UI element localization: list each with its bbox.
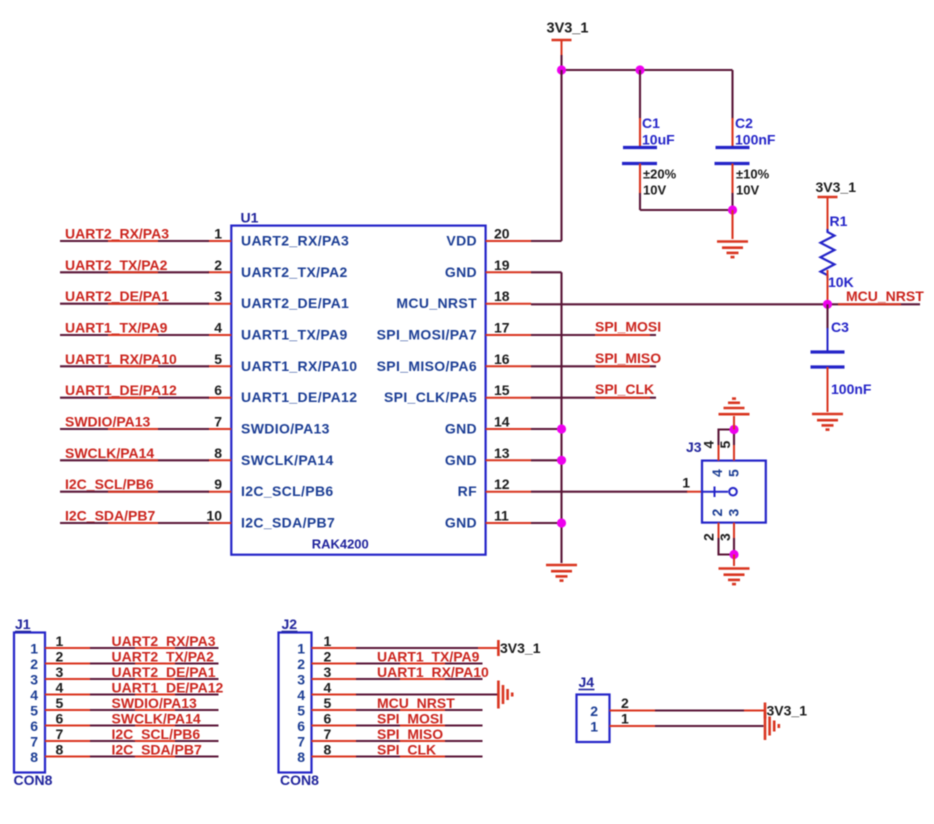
svg-text:13: 13	[494, 445, 510, 461]
svg-text:UART2_RX/PA3: UART2_RX/PA3	[112, 633, 216, 649]
J2 pin 6 stub	[312, 725, 358, 727]
wire net UART2_TX/PA2	[60, 271, 209, 273]
svg-text:MCU_NRST: MCU_NRST	[846, 288, 924, 304]
net label SWCLK/PA14 at J1 pin 6	[112, 711, 201, 727]
J1 pin 3 stub	[45, 678, 91, 680]
wire stub to ground under C2	[731, 210, 733, 239]
svg-text:6: 6	[297, 718, 305, 734]
connector J2 body	[279, 633, 312, 773]
net label MCU_NRST	[838, 288, 924, 304]
connector J3 body	[702, 461, 766, 523]
svg-text:7: 7	[30, 734, 38, 750]
J1 pin 5 stub	[45, 709, 91, 711]
svg-text:RAK4200: RAK4200	[312, 537, 369, 552]
J4 pin 1 stub	[610, 725, 657, 727]
svg-text:100nF: 100nF	[735, 132, 776, 148]
svg-text:2: 2	[590, 703, 598, 719]
ground below J3	[719, 569, 750, 585]
svg-text:UART1_RX/PA10: UART1_RX/PA10	[377, 664, 489, 680]
wire net I2C_SCL/PB6	[60, 491, 209, 493]
svg-text:10V: 10V	[643, 183, 666, 198]
power symbol 3V3_1 at J2	[498, 640, 540, 656]
J1 pin 1 stub	[45, 647, 91, 649]
ground at GND bus bottom	[546, 565, 577, 581]
wire net RF to J3	[531, 491, 688, 493]
svg-text:SWDIO/PA13: SWDIO/PA13	[112, 695, 198, 711]
svg-text:J1: J1	[15, 616, 31, 632]
wire J1 pin 3 net UART2_DE/PA1	[90, 678, 219, 680]
wire J1 pin 4 net UART1_DE/PA12	[90, 693, 219, 695]
U1 pin 6 stub	[208, 397, 231, 399]
svg-text:8: 8	[297, 749, 305, 765]
net label SPI_CLK	[595, 381, 654, 398]
svg-text:6: 6	[214, 382, 222, 398]
J3 internal pin names 4 5	[709, 469, 742, 477]
svg-text:C3: C3	[831, 319, 849, 335]
svg-text:UART2_DE/PA1: UART2_DE/PA1	[65, 288, 169, 304]
svg-text:VDD: VDD	[446, 233, 477, 249]
U1 pin 4 stub	[208, 334, 231, 336]
wire net UART1_DE/PA12	[60, 397, 209, 399]
svg-text:MCU_NRST: MCU_NRST	[377, 695, 455, 711]
svg-text:1: 1	[621, 711, 629, 727]
svg-text:GND: GND	[445, 421, 477, 437]
power symbol 3V3_1 (right)	[816, 179, 857, 229]
junction at cap ground	[728, 205, 737, 214]
svg-text:2: 2	[297, 656, 305, 672]
svg-text:2: 2	[214, 257, 222, 273]
svg-text:7: 7	[56, 726, 64, 742]
wire J3 top pins to ground	[719, 430, 735, 446]
svg-text:5: 5	[56, 695, 64, 711]
power symbol 3V3_1 (top)	[547, 21, 589, 57]
J3 pin 2 stub	[718, 523, 720, 539]
net label UART1_TX/PA9	[65, 320, 168, 336]
U1 pin 2 stub	[208, 271, 231, 273]
wire 3V3 rail	[562, 69, 733, 71]
U1 pin 8 stub	[208, 459, 231, 461]
J2 reference designator	[282, 616, 298, 632]
svg-text:1: 1	[214, 226, 222, 242]
wire J1 pin 8 net I2C_SDA/PB7	[90, 755, 219, 757]
net label SWDIO/PA13	[65, 414, 158, 430]
svg-text:4: 4	[30, 687, 38, 703]
svg-text:10uF: 10uF	[642, 132, 675, 148]
net label UART1_RX/PA10	[65, 351, 177, 367]
capacitor C1	[622, 115, 675, 164]
svg-text:SPI_CLK/PA5: SPI_CLK/PA5	[384, 389, 477, 405]
ground under C3	[812, 414, 843, 430]
U1 pin 17 stub	[486, 334, 531, 336]
svg-text:5: 5	[726, 469, 742, 477]
svg-text:C1: C1	[642, 115, 660, 131]
svg-text:I2C_SCL/PB6: I2C_SCL/PB6	[241, 483, 334, 499]
wire net I2C_SDA/PB7	[60, 522, 209, 524]
net label SPI_MOSI	[595, 319, 661, 336]
svg-text:UART2_DE/PA1: UART2_DE/PA1	[112, 664, 216, 680]
svg-text:UART1_TX/PA9: UART1_TX/PA9	[241, 327, 348, 343]
wire net MCU_NRST	[531, 303, 920, 305]
svg-text:SPI_MISO: SPI_MISO	[377, 726, 443, 742]
U1 pin 3 stub	[208, 303, 231, 305]
net label I2C_SCL/PB6	[65, 476, 158, 492]
svg-text:17: 17	[494, 320, 510, 336]
wire J1 pin 6 net SWCLK/PA14	[90, 724, 219, 726]
net label UART1_DE/PA12 at J1 pin 4	[112, 680, 224, 696]
svg-text:I2C_SDA/PB7: I2C_SDA/PB7	[241, 515, 335, 531]
wire net UART2_RX/PA3	[60, 240, 209, 242]
wire C1 top branch	[639, 70, 641, 119]
svg-text:GND: GND	[445, 515, 477, 531]
net label SPI_MOSI at J2 pin 6	[377, 711, 445, 727]
svg-text:SWDIO/PA13: SWDIO/PA13	[241, 421, 330, 437]
svg-text:SPI_MOSI: SPI_MOSI	[595, 319, 661, 335]
J2 pin 4 stub	[312, 694, 358, 696]
wire GND bus vertical	[560, 272, 562, 563]
svg-text:5: 5	[324, 695, 332, 711]
ground above J3 (inverted)	[719, 399, 750, 415]
svg-text:3: 3	[214, 288, 222, 304]
J2 pin 1 stub	[312, 647, 358, 649]
svg-text:GND: GND	[445, 452, 477, 468]
svg-text:UART1_RX/PA10: UART1_RX/PA10	[65, 351, 177, 367]
svg-text:5: 5	[297, 703, 305, 719]
J1 pin 4 stub	[45, 694, 91, 696]
svg-text:UART1_DE/PA12: UART1_DE/PA12	[112, 680, 224, 696]
svg-text:4: 4	[214, 320, 222, 336]
svg-text:4: 4	[709, 469, 725, 477]
svg-text:UART1_DE/PA12: UART1_DE/PA12	[241, 389, 357, 405]
svg-text:C2: C2	[735, 115, 753, 131]
svg-text:J4: J4	[579, 674, 595, 690]
J1 pin 2 stub	[45, 663, 91, 665]
svg-text:7: 7	[214, 414, 222, 430]
svg-text:3: 3	[324, 664, 332, 680]
svg-text:SWCLK/PA14: SWCLK/PA14	[112, 711, 201, 727]
wire pin 19 GND to bus	[531, 271, 562, 273]
svg-text:1: 1	[682, 475, 690, 491]
wire J1 pin 2 net UART2_TX/PA2	[90, 662, 219, 664]
wire net SPI_MOSI	[531, 334, 656, 336]
wire J2 pin 5 net MCU_NRST	[356, 709, 483, 711]
J3 internal pin names 2 3	[709, 509, 742, 517]
ground at J2 pin 4 (sideways)	[498, 681, 512, 709]
U1 pin 16 stub	[486, 365, 531, 367]
svg-text:J3: J3	[686, 439, 702, 455]
svg-text:3V3_1: 3V3_1	[767, 703, 808, 719]
junction at 3V3 stub/rail	[557, 65, 566, 74]
svg-text:3V3_1: 3V3_1	[500, 640, 541, 656]
U1 pin 20 stub	[486, 240, 531, 242]
net label UART1_DE/PA12	[65, 382, 177, 398]
svg-text:8: 8	[56, 742, 64, 758]
svg-text:SPI_MOSI: SPI_MOSI	[377, 711, 443, 727]
junction at C1 branch	[635, 65, 644, 74]
net label UART1_TX/PA9 at J2 pin 2	[377, 649, 480, 665]
net label UART2_RX/PA3	[65, 226, 169, 242]
wire net SWCLK/PA14	[60, 459, 209, 461]
wire J1 pin 1 net UART2_RX/PA3	[90, 647, 219, 649]
svg-text:SPI_MISO/PA6: SPI_MISO/PA6	[377, 358, 477, 374]
wire J2 pin 4 to ground	[356, 693, 498, 695]
svg-text:11: 11	[494, 508, 509, 524]
svg-text:4: 4	[324, 680, 332, 696]
wire C3 bottom to ground	[827, 367, 829, 412]
U1 pin 10 stub	[208, 522, 231, 524]
J2 pin 5 stub	[312, 709, 358, 711]
svg-text:SWCLK/PA14: SWCLK/PA14	[65, 445, 154, 461]
J1 pin 6 stub	[45, 725, 91, 727]
svg-text:SPI_MISO: SPI_MISO	[595, 350, 661, 366]
U1 pin 19 stub	[486, 271, 531, 273]
svg-text:8: 8	[324, 742, 332, 758]
wire stub J3 bottom ground	[733, 555, 735, 567]
wire J2 pin 7 net SPI_MISO	[356, 740, 483, 742]
svg-text:±20%: ±20%	[643, 167, 677, 182]
svg-text:I2C_SCL/PB6: I2C_SCL/PB6	[112, 726, 201, 742]
net label UART1_RX/PA10 at J2 pin 3	[377, 664, 489, 680]
wire net UART2_DE/PA1	[60, 303, 209, 305]
wire J1 pin 7 net I2C_SCL/PB6	[90, 740, 219, 742]
svg-text:8: 8	[214, 445, 222, 461]
wire net SPI_MISO	[531, 365, 656, 367]
svg-text:1: 1	[324, 633, 332, 649]
svg-text:7: 7	[324, 726, 332, 742]
svg-text:GND: GND	[445, 264, 477, 280]
wire J1 pin 5 net SWDIO/PA13	[90, 709, 219, 711]
svg-text:100nF: 100nF	[831, 381, 872, 397]
J1 reference designator	[15, 616, 31, 632]
U1 pin 11 stub	[486, 522, 531, 524]
svg-text:RF: RF	[458, 483, 477, 499]
svg-text:R1: R1	[830, 213, 848, 229]
J4 pin 2 stub	[610, 710, 657, 712]
U1 pin 18 stub	[486, 303, 531, 305]
wire net UART1_RX/PA10	[60, 365, 209, 367]
net label I2C_SDA/PB7 at J1 pin 8	[112, 742, 202, 758]
connector J4 body	[577, 695, 610, 743]
J2 pin 3 stub	[312, 678, 358, 680]
junction J3 top ground	[729, 425, 738, 434]
svg-text:4: 4	[701, 441, 717, 449]
svg-text:2: 2	[30, 656, 38, 672]
svg-text:12: 12	[494, 476, 510, 492]
svg-text:19: 19	[494, 257, 510, 273]
svg-text:4: 4	[297, 687, 305, 703]
svg-text:UART2_TX/PA2: UART2_TX/PA2	[112, 649, 215, 665]
wire J4 pin 1 to ground	[655, 725, 764, 727]
svg-text:2: 2	[621, 695, 629, 711]
svg-text:3: 3	[56, 664, 64, 680]
J4 reference designator	[579, 674, 595, 690]
wire net UART1_TX/PA9	[60, 334, 209, 336]
wire net SWDIO/PA13	[60, 428, 209, 430]
svg-text:1: 1	[590, 719, 598, 735]
svg-text:CON8: CON8	[14, 772, 53, 788]
wire pin 13 to GND bus	[531, 459, 562, 461]
resistor R1	[821, 213, 854, 290]
svg-text:3: 3	[30, 672, 38, 688]
wire cap bottom rail	[640, 209, 733, 211]
svg-text:3V3_1: 3V3_1	[816, 179, 857, 195]
net label UART2_TX/PA2 at J1 pin 2	[112, 649, 215, 665]
svg-text:2: 2	[709, 509, 725, 517]
U1 pin 15 stub	[486, 397, 531, 399]
C1 tolerance label	[643, 167, 677, 198]
net label SPI_MISO at J2 pin 7	[377, 726, 445, 742]
svg-text:UART2_RX/PA3: UART2_RX/PA3	[65, 226, 169, 242]
U1 pin 9 stub	[208, 491, 231, 493]
svg-text:1: 1	[56, 633, 64, 649]
wire C1 bottom	[639, 164, 641, 195]
svg-text:3V3_1: 3V3_1	[547, 21, 589, 37]
svg-text:SWDIO/PA13: SWDIO/PA13	[65, 414, 151, 430]
wire net SPI_CLK	[531, 397, 656, 399]
svg-text:I2C_SCL/PB6: I2C_SCL/PB6	[65, 476, 154, 492]
svg-text:UART2_TX/PA2: UART2_TX/PA2	[65, 257, 168, 273]
junction pin 11 GND	[557, 518, 566, 527]
svg-text:UART2_TX/PA2: UART2_TX/PA2	[241, 264, 348, 280]
capacitor C2	[715, 115, 776, 164]
U1 pin 14 stub	[486, 428, 531, 430]
svg-text:UART2_RX/PA3: UART2_RX/PA3	[241, 233, 349, 249]
ground under C2	[717, 242, 748, 258]
svg-text:20: 20	[494, 226, 510, 242]
wire J2 pin 6 net SPI_MOSI	[356, 724, 483, 726]
svg-text:I2C_SDA/PB7: I2C_SDA/PB7	[112, 742, 202, 758]
svg-text:18: 18	[494, 288, 510, 304]
svg-text:4: 4	[56, 680, 64, 696]
svg-text:J2: J2	[282, 616, 298, 632]
svg-text:2: 2	[701, 533, 717, 541]
wire 3V3 stub to rail	[560, 55, 562, 70]
svg-text:5: 5	[214, 351, 222, 367]
net label SPI_MISO	[595, 350, 661, 367]
svg-text:6: 6	[324, 711, 332, 727]
J3 pin 3 stub	[733, 523, 735, 539]
wire J3 bottom pins to ground	[719, 538, 735, 555]
junction pin 13 GND	[557, 456, 566, 465]
net label I2C_SDA/PB7	[65, 508, 158, 524]
J3 pin 1 contact symbol	[702, 487, 737, 498]
svg-text:±10%: ±10%	[736, 167, 770, 182]
svg-text:SPI_MOSI/PA7: SPI_MOSI/PA7	[377, 327, 477, 343]
U1 pin 13 stub	[486, 459, 531, 461]
svg-text:6: 6	[30, 718, 38, 734]
U1 pin 1 stub	[208, 240, 231, 242]
wire stub J3 top ground	[733, 416, 735, 430]
svg-text:1: 1	[297, 641, 305, 657]
svg-text:I2C_SDA/PB7: I2C_SDA/PB7	[65, 508, 155, 524]
svg-text:15: 15	[494, 382, 510, 398]
J3 pin 5 stub	[733, 444, 735, 461]
junction pin 14 GND	[557, 424, 566, 433]
C2 tolerance label	[736, 167, 770, 198]
net label I2C_SCL/PB6 at J1 pin 7	[112, 726, 201, 742]
wire pin 14 to GND bus	[531, 428, 562, 430]
J2 pin 7 stub	[312, 740, 358, 742]
net label UART2_DE/PA1 at J1 pin 3	[112, 664, 216, 680]
svg-text:SWCLK/PA14: SWCLK/PA14	[241, 452, 334, 468]
power symbol 3V3_1 at J4	[765, 703, 807, 719]
svg-text:SPI_CLK: SPI_CLK	[377, 742, 436, 758]
net label MCU_NRST at J2 pin 5	[377, 695, 455, 711]
svg-text:MCU_NRST: MCU_NRST	[396, 295, 477, 311]
svg-text:UART1_TX/PA9: UART1_TX/PA9	[65, 320, 168, 336]
wire J2 pin 3 net UART1_RX/PA10	[356, 678, 483, 680]
svg-text:10: 10	[206, 508, 222, 524]
wire C2 bottom	[731, 164, 733, 195]
J3 pin 4 stub	[718, 444, 720, 461]
U1 pin 7 stub	[208, 428, 231, 430]
wire pin 11 to GND bus	[531, 522, 562, 524]
svg-text:5: 5	[30, 703, 38, 719]
J1 pin 7 stub	[45, 740, 91, 742]
svg-text:1: 1	[30, 641, 38, 657]
capacitor C3	[811, 304, 872, 397]
wire J2 pin 2 net UART1_TX/PA9	[356, 662, 483, 664]
svg-text:16: 16	[494, 351, 510, 367]
svg-text:3: 3	[297, 672, 305, 688]
wire VDD drop to pin 20	[560, 70, 562, 241]
svg-text:UART2_DE/PA1: UART2_DE/PA1	[241, 295, 349, 311]
svg-text:10V: 10V	[736, 183, 759, 198]
svg-text:CON8: CON8	[280, 772, 319, 788]
svg-text:7: 7	[297, 734, 305, 750]
svg-text:U1: U1	[241, 210, 259, 226]
net label UART2_TX/PA2	[65, 257, 168, 273]
net label UART2_DE/PA1	[65, 288, 169, 304]
svg-text:14: 14	[494, 414, 510, 430]
wire J4 pin 2 to 3V3_1	[655, 709, 765, 711]
J2 pin 8 stub	[312, 756, 358, 758]
wire J2 pin 1 to 3V3_1	[356, 647, 498, 649]
net label SWCLK/PA14	[65, 445, 158, 461]
svg-text:SPI_CLK: SPI_CLK	[595, 381, 654, 397]
net label SWDIO/PA13 at J1 pin 5	[112, 695, 198, 711]
wire J2 pin 8 net SPI_CLK	[356, 755, 483, 757]
svg-text:6: 6	[56, 711, 64, 727]
J3 pin 1 stub	[687, 491, 702, 493]
svg-text:2: 2	[324, 649, 332, 665]
svg-text:9: 9	[214, 476, 222, 492]
wire pin 20 VDD to rail	[531, 240, 562, 242]
net label UART2_RX/PA3 at J1 pin 1	[112, 633, 216, 649]
svg-text:3: 3	[726, 509, 742, 517]
ground at J4 pin 1 (sideways)	[765, 712, 779, 740]
svg-text:UART1_RX/PA10: UART1_RX/PA10	[241, 358, 357, 374]
wire C2 top branch	[731, 70, 733, 119]
connector J1 body	[14, 633, 45, 773]
svg-text:8: 8	[30, 749, 38, 765]
svg-text:UART1_TX/PA9: UART1_TX/PA9	[377, 649, 480, 665]
junction J3 bottom ground	[729, 550, 738, 559]
J2 pin 2 stub	[312, 663, 358, 665]
op-amp U1 body	[231, 226, 485, 555]
wire R1 bottom to junction	[827, 270, 829, 304]
svg-text:2: 2	[56, 649, 64, 665]
net label SPI_CLK at J2 pin 8	[377, 742, 445, 758]
J1 pin 8 stub	[45, 756, 91, 758]
junction R1/C3/MCU_NRST	[823, 300, 832, 309]
svg-text:UART1_DE/PA12: UART1_DE/PA12	[65, 382, 177, 398]
U1 pin 5 stub	[208, 365, 231, 367]
U1 pin 12 stub	[486, 491, 531, 493]
